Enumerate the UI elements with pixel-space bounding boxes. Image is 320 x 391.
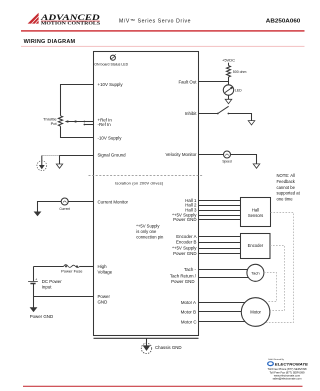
wire velocity monitor [199,154,224,156]
wire encoder power gnd [199,253,241,255]
svg-text:+10V Supply: +10V Supply [98,82,124,87]
svg-text:Hall: Hall [252,207,259,212]
note +5V supply single pin [136,224,164,240]
svg-text:Power GND: Power GND [173,251,196,256]
earth ground (dashed circle) [37,156,47,171]
wire resistor to LED [228,77,230,85]
battery BT1 [28,267,38,297]
svg-text:Encoder: Encoder [248,243,264,248]
svg-text:Motor C: Motor C [181,319,197,324]
wire +5VDC to resistor [228,63,230,66]
wire hall 1 [199,200,241,202]
on-board status LED D2 [110,54,116,60]
wire dotted earth option [42,155,60,157]
bottom red rule [23,386,303,387]
wire to ground [38,202,62,212]
Encoder labels [172,234,197,256]
wire +10V supply [61,85,94,116]
svg-text:High: High [98,264,108,269]
svg-text:Velocity Monitor: Velocity Monitor [166,152,198,157]
svg-text:Current: Current [59,207,70,211]
wire hall 2 [199,205,241,207]
svg-text:Tach Return /: Tach Return / [170,274,197,279]
svg-text:LED: LED [235,89,242,93]
svg-text:Motor A: Motor A [181,300,196,305]
LED D1 [223,85,242,95]
wire tach return [199,277,249,279]
tach T1 [247,264,264,281]
svg-text:+: + [35,278,37,282]
svg-text:500 ohm: 500 ohm [233,70,247,74]
wire inhibit [199,113,218,115]
svg-text:NOTE: All: NOTE: All [277,173,295,178]
potentiometer throttle pot [58,116,62,126]
svg-text:Encoder B: Encoder B [176,240,197,245]
chassis ground symbol [141,343,151,353]
logo triangle [28,13,39,24]
NOTE text [277,173,301,201]
svg-text:Feedback: Feedback [277,179,296,184]
electromate stamp [267,359,308,381]
svg-text:M/V™ Series Servo Drive: M/V™ Series Servo Drive [119,18,191,24]
svg-text:GND: GND [98,299,108,304]
ground current monitor (filled arrow) [34,212,42,217]
svg-text:+5VDC: +5VDC [222,57,235,62]
meter speed M2 [222,151,231,164]
coupling encoder (dashed) [270,246,285,311]
svg-text:Chassis GND: Chassis GND [155,345,182,350]
svg-text:sales@electromate.com: sales@electromate.com [273,377,303,381]
encoder box [241,234,271,259]
coupling tach (dashed) [264,273,277,302]
svg-text:Inhibit: Inhibit [185,111,197,116]
wire chassis ground stub [146,338,148,345]
meter current M1 [59,198,70,211]
hall sensors box [241,198,271,227]
wire high voltage [80,266,94,268]
header red rule [21,30,305,31]
switch SW1 [217,106,229,114]
svg-text:Signal Ground: Signal Ground [98,152,127,157]
svg-text:WIRING DIAGRAM: WIRING DIAGRAM [24,39,76,45]
wire current monitor [68,201,93,203]
svg-text:ELECTROMATE: ELECTROMATE [275,361,309,366]
wire encoder +5V [199,248,241,250]
svg-text:MOTION CONTROLS: MOTION CONTROLS [41,21,101,26]
svg-text:Current Monitor: Current Monitor [98,200,129,205]
ground signal (open arrow) [56,156,62,169]
svg-text:Isolation (on 200V drives): Isolation (on 200V drives) [115,180,164,185]
svg-text:Tach -: Tach - [184,267,196,272]
drive base second line [94,337,199,339]
svg-text:connection pin: connection pin [136,235,164,240]
svg-text:Power: Power [98,294,111,299]
wire battery to ground [33,297,35,308]
wire encoder B [199,242,241,244]
drive enclosure box U1 [94,52,199,336]
node -Ref junction [84,124,86,126]
isolation dashed line [89,175,204,177]
wire encoder A [199,236,241,238]
wiper arrow [65,120,85,123]
svg-text:*+5V Supply: *+5V Supply [136,224,160,229]
Tach labels [170,267,197,284]
coupling hall (dashed) [266,213,293,323]
svg-text:is only one: is only one [136,229,157,234]
node +Ref junction [84,121,86,123]
svg-text:Voltage: Voltage [98,270,113,275]
heading pink rule [21,45,305,48]
ground LED (open arrow) [225,99,232,103]
svg-text:*+5V Supply: *+5V Supply [172,246,197,251]
wire pot bottom to -10V [61,126,94,137]
wire signal ground [60,155,94,157]
wire +Ref In [84,121,93,123]
wire hall 3 [199,210,241,212]
svg-text:Tach: Tach [251,270,259,275]
wire -Ref In [84,124,93,126]
motor M [241,298,270,327]
wire tach - [199,269,248,271]
logo red rule [41,20,99,23]
ground inhibit (open arrow) [248,121,255,125]
svg-text:ON board Status LED: ON board Status LED [94,62,128,66]
wire hall +5V [199,215,241,217]
svg-text:AB250A060: AB250A060 [266,18,301,24]
svg-text:DC Power: DC Power [42,279,63,284]
Hall labels [172,198,197,222]
resistor R1 500 ohm [227,66,231,77]
svg-text:Speed: Speed [222,160,231,164]
wire power gnd return [34,296,94,298]
svg-text:Power GND: Power GND [173,217,196,222]
ground power (filled arrow) [30,307,38,312]
svg-text:Encoder A: Encoder A [176,234,196,239]
wire motor B [199,311,242,313]
svg-text:Pot: Pot [51,121,58,126]
svg-text:Sensors: Sensors [248,213,263,218]
svg-text:Power GND: Power GND [30,314,53,319]
svg-text:Motor: Motor [250,310,261,315]
fuse F1 [61,265,83,274]
svg-text:Power GND: Power GND [171,279,194,284]
wire motor A [199,302,245,304]
svg-text:Power Fuse: Power Fuse [61,269,83,274]
wire hall power gnd [199,219,241,221]
svg-text:-10V Supply: -10V Supply [98,136,123,141]
svg-text:-Ref In: -Ref In [98,122,112,127]
svg-text:one time: one time [277,196,294,201]
svg-text:supported at: supported at [277,191,301,196]
svg-text:cannot be: cannot be [277,185,296,190]
Motor labels [181,300,197,324]
wire LED to ground [228,95,230,99]
svg-text:Motor B: Motor B [181,310,196,315]
svg-text:Fault Out: Fault Out [178,80,197,85]
wire fault out [199,81,229,83]
wire switch to ground [228,114,251,121]
wire motor C [199,321,246,323]
svg-text:Input: Input [42,284,53,289]
wire to ground [231,155,257,164]
ground velocity (open arrow) [253,164,260,168]
